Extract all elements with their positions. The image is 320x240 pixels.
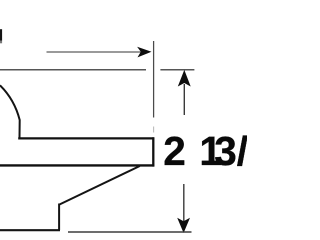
svg-text:/: /: [237, 128, 247, 174]
width extension line: [153, 41, 155, 118]
lower piece bottom edge: [0, 229, 60, 231]
cut-off numeral fragment at left edge: [0, 29, 2, 40]
height dimension bottom extension line: [68, 231, 192, 233]
profile top edge: [0, 69, 146, 71]
width dimension line: [47, 51, 142, 53]
profile ogee curve: [0, 85, 20, 137]
height dimension upper arrowhead: [178, 70, 191, 87]
height dimension upper shaft: [183, 84, 185, 115]
profile tongue bottom edge: [0, 164, 154, 166]
height dimension lower shaft: [183, 184, 185, 224]
height dimension top extension line: [160, 69, 194, 71]
width extension line faint tail: [153, 127, 155, 133]
svg-text:3: 3: [214, 128, 237, 174]
height dimension lower arrowhead: [177, 218, 190, 233]
lower piece bevel diagonal: [59, 166, 140, 205]
profile tongue right edge: [152, 137, 154, 166]
lower piece left vertical: [58, 204, 60, 231]
width dimension arrowhead: [137, 47, 151, 58]
profile tongue top edge: [18, 137, 154, 139]
svg-text:2: 2: [163, 128, 186, 174]
